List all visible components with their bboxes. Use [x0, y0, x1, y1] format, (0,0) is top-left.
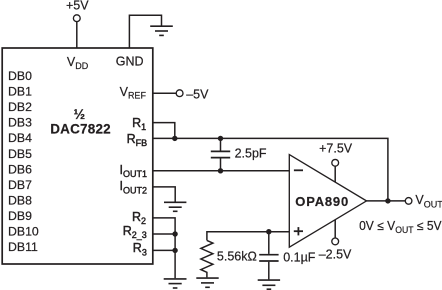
pin IOUT2 label: [120, 179, 148, 195]
pin RFB label: [127, 132, 148, 148]
op-amp U2 OPA890: [289, 155, 366, 248]
ground (C2): [258, 280, 280, 289]
resistor R 5.56k: [201, 240, 213, 277]
pin DB5: [8, 147, 32, 161]
wire IOUT1 to inverting input: [153, 170, 290, 172]
label 0.1uF: [283, 251, 316, 265]
capacitor C2 0.1uF: [259, 232, 278, 280]
ground (top right): [150, 26, 173, 35]
svg-text:+7.5V: +7.5V: [319, 142, 353, 156]
junction RFB-C1: [218, 136, 223, 141]
pin VREF label: [120, 85, 147, 101]
svg-text:½: ½: [74, 106, 86, 122]
wire noninverting input net: [207, 232, 290, 241]
junction R3: [172, 248, 177, 253]
svg-text:DB6: DB6: [8, 162, 32, 176]
wire R2_3: [153, 233, 175, 235]
pin VDD label: [67, 55, 89, 71]
wire RFB feedback net: [153, 138, 388, 201]
pin DB7: [8, 178, 32, 192]
terminal VREF: [176, 90, 183, 97]
wire GND pin to ground: [129, 15, 161, 48]
label OPA890: [295, 194, 349, 209]
junction C2 top: [266, 229, 271, 234]
wire R3: [153, 249, 175, 251]
label half: [74, 106, 86, 122]
terminal +7.5V: [332, 159, 339, 166]
label -2.5V: [319, 248, 352, 262]
svg-text:–5V: –5V: [186, 87, 209, 101]
label +7.5V: [319, 142, 353, 156]
DAC U1 box: [2, 48, 153, 264]
pin GND label: [116, 55, 144, 69]
terminal VOUT: [405, 198, 412, 205]
svg-text:DB11: DB11: [8, 240, 38, 254]
pin DB10: [8, 225, 39, 239]
svg-text:0V ≤ VOUT ≤ 5V: 0V ≤ VOUT ≤ 5V: [359, 219, 442, 235]
label VOUT: [415, 193, 442, 210]
svg-text:5.56kΩ: 5.56kΩ: [217, 250, 257, 264]
svg-text:2.5pF: 2.5pF: [235, 147, 267, 161]
pin R2_3 label: [123, 224, 147, 240]
svg-text:+5V: +5V: [66, 0, 89, 13]
terminal -2.5V: [332, 238, 339, 245]
svg-text:DB1: DB1: [8, 85, 32, 99]
capacitor C1 2.5pF: [211, 138, 230, 170]
label 5.56k: [217, 250, 257, 264]
wire -2.5V supply: [334, 220, 336, 238]
svg-text:DB10: DB10: [8, 225, 39, 239]
wire output: [366, 200, 406, 202]
pin DB2: [8, 100, 32, 114]
junction output: [385, 198, 390, 203]
svg-text:GND: GND: [116, 55, 144, 69]
junction R1-RFB: [172, 136, 177, 141]
svg-text:DB3: DB3: [8, 116, 32, 130]
pin DB4: [8, 131, 32, 145]
svg-text:–2.5V: –2.5V: [319, 248, 352, 262]
wire IOUT2 to ground: [153, 187, 175, 202]
svg-text:DAC7822: DAC7822: [50, 122, 111, 137]
label DAC7822: [50, 122, 111, 137]
svg-text:DB4: DB4: [8, 131, 32, 145]
junction R2_3: [172, 231, 177, 236]
power +5V label: [66, 0, 89, 13]
ground (R 5.56k): [196, 278, 218, 287]
ground (IOUT2): [164, 202, 186, 211]
pin DB9: [8, 209, 32, 223]
terminal +5V: [73, 15, 80, 22]
pin DB0: [8, 69, 32, 83]
pin R3 label: [133, 241, 147, 257]
wire R1 to RFB node: [153, 123, 175, 139]
junction IOUT1-C1: [218, 168, 223, 173]
ground (R2 string): [164, 279, 187, 288]
label 2.5pF: [235, 147, 267, 161]
wire R2 down to ground: [153, 218, 175, 278]
svg-text:DB0: DB0: [8, 69, 32, 83]
svg-text:VOUT: VOUT: [415, 193, 442, 210]
svg-text:DB2: DB2: [8, 100, 32, 114]
wire VREF: [153, 92, 177, 94]
label -5V: [186, 87, 209, 101]
svg-text:0.1µF: 0.1µF: [283, 251, 316, 265]
pin DB1: [8, 85, 32, 99]
pin DB3: [8, 116, 32, 130]
svg-text:DB9: DB9: [8, 209, 32, 223]
label output range: [359, 219, 442, 235]
svg-text:DB5: DB5: [8, 147, 32, 161]
svg-text:DB8: DB8: [8, 193, 32, 207]
pin DB6: [8, 162, 32, 176]
inverting input symbol: [294, 169, 303, 171]
pin R1 label: [132, 116, 146, 132]
pin IOUT1 label: [120, 163, 148, 179]
pin DB8: [8, 193, 32, 207]
pin R2 label: [132, 210, 146, 226]
wire +7.5V supply: [334, 166, 336, 182]
noninverting input symbol: [294, 227, 303, 235]
pin DB11: [8, 240, 38, 254]
svg-text:OPA890: OPA890: [295, 194, 349, 209]
wire +5V to VDD pin: [76, 21, 78, 48]
svg-text:DB7: DB7: [8, 178, 32, 192]
